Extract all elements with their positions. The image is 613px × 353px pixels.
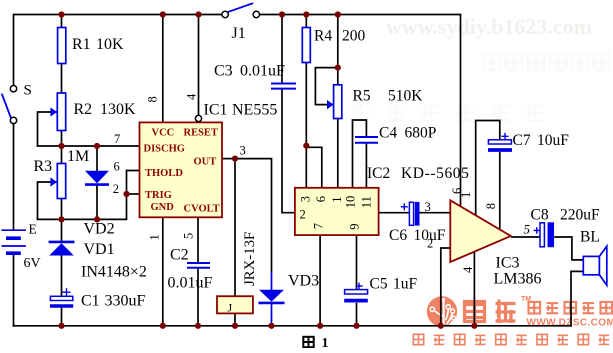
- pin number 6 LM386: [450, 188, 464, 194]
- svg-text:GND: GND: [151, 202, 175, 213]
- wire VD1 to C1: [61, 255, 63, 297]
- svg-text:VD1: VD1: [84, 241, 115, 258]
- wire R5 wiper: [315, 68, 338, 105]
- pin number 3 LM386: [425, 200, 431, 214]
- label R1 10K: [72, 36, 124, 53]
- wire C8 to speaker: [554, 237, 583, 260]
- watermark logo bottom slogan: [413, 334, 609, 344]
- svg-text:NE555: NE555: [232, 102, 277, 119]
- speaker BL: [583, 246, 607, 285]
- wire TRIG to pin2: [127, 193, 140, 195]
- svg-text:10: 10: [344, 196, 358, 209]
- label C2: [170, 247, 189, 264]
- wire top supply rail left segment: [14, 14, 223, 16]
- svg-text:www.sydiy.b1623.com: www.sydiy.b1623.com: [386, 14, 592, 39]
- wire C5 to rail: [356, 303, 358, 326]
- svg-text:330uF: 330uF: [105, 293, 146, 310]
- svg-text:220uF: 220uF: [560, 207, 600, 224]
- svg-text:5: 5: [182, 233, 196, 239]
- pin number 7: [114, 132, 120, 146]
- label S: [24, 83, 32, 99]
- wire battery to bottom rail: [13, 253, 15, 327]
- label C1 330uF: [81, 293, 146, 310]
- label BL: [580, 229, 600, 246]
- label C3 0.01uF: [214, 63, 285, 80]
- label R3: [34, 158, 53, 175]
- wire supply to LM386 pin6: [460, 14, 462, 207]
- svg-text:LM386: LM386: [494, 271, 542, 288]
- svg-text:OUT: OUT: [194, 156, 217, 167]
- svg-text:C6: C6: [389, 227, 407, 244]
- capacitor C7: [488, 133, 512, 150]
- wire pin4 RESET: [198, 15, 200, 116]
- svg-text:3: 3: [298, 196, 312, 202]
- pin number 1 LM386: [459, 192, 473, 198]
- label R5 510K: [353, 88, 424, 105]
- svg-text:5: 5: [524, 222, 531, 237]
- wire R2 wiper: [38, 112, 58, 146]
- junction node top C3: [279, 11, 285, 17]
- resistor R5 wiper arrow: [327, 100, 334, 109]
- wire top supply rail right segment: [260, 14, 461, 16]
- resistor R1: [58, 28, 66, 64]
- svg-text:BL: BL: [580, 229, 600, 246]
- watermark faint text middle: [352, 106, 544, 121]
- battery E 6V: [2, 230, 26, 253]
- svg-text:1: 1: [330, 197, 344, 203]
- wire pin1 GND to rail: [162, 217, 164, 325]
- junction node bottom VD2: [94, 216, 100, 222]
- junction node gnd C1: [58, 323, 64, 329]
- label E: [29, 221, 37, 236]
- wire R4 to IC2 pin3: [305, 62, 307, 188]
- switch J1 contacts: [222, 11, 260, 17]
- junction node TRIG-THOLD: [123, 191, 129, 197]
- resistor R2 pot body: [57, 93, 65, 131]
- svg-text:130K: 130K: [100, 101, 136, 118]
- capacitor C2: [187, 263, 210, 268]
- watermark logo text weiku: [465, 300, 516, 324]
- wire C2 to rail: [197, 268, 199, 326]
- wire R5 top: [337, 15, 339, 85]
- wire TRIG bottom node: [37, 218, 127, 220]
- svg-text:IN4148×2: IN4148×2: [81, 264, 147, 281]
- svg-text:IC2: IC2: [367, 165, 390, 182]
- svg-text:2: 2: [300, 208, 306, 222]
- pin number 1: [148, 234, 162, 240]
- op-amp IC1 NE555 body: [140, 122, 223, 217]
- junction node top R4: [303, 11, 309, 17]
- capacitor C6: [401, 202, 417, 226]
- wire IC2 pin9 to C5: [356, 235, 358, 289]
- label R2 130K: [74, 101, 137, 118]
- svg-text:1: 1: [148, 234, 162, 240]
- label C2 value: [168, 275, 213, 292]
- wire VD3 to rail: [271, 304, 273, 326]
- svg-text:0.01uF: 0.01uF: [240, 63, 285, 80]
- svg-text:1: 1: [459, 192, 473, 198]
- label J1: [232, 25, 246, 42]
- label 1M: [67, 148, 89, 165]
- junction node DISCHG R2: [58, 143, 64, 149]
- wire TRIG riser: [126, 194, 128, 220]
- svg-text:C1: C1: [81, 293, 100, 310]
- label C7 10uF: [513, 132, 570, 149]
- svg-text:4: 4: [461, 266, 475, 273]
- junction node gnd C5: [353, 323, 359, 329]
- wire R2 to R3: [61, 131, 63, 164]
- svg-text:3: 3: [425, 200, 431, 214]
- capacitor C1: [50, 288, 73, 306]
- svg-text:C3: C3: [214, 63, 233, 80]
- label VD1: [84, 241, 115, 258]
- wire LM386 pin4 to rail: [473, 252, 475, 326]
- svg-text:10uF: 10uF: [537, 132, 569, 149]
- IC1 pin4 reset circle: [195, 115, 201, 121]
- caption figure 1: [303, 336, 328, 351]
- svg-text:680P: 680P: [405, 125, 437, 142]
- junction node gnd VD3: [268, 323, 274, 329]
- svg-text:R1: R1: [72, 36, 91, 53]
- svg-text:VCC: VCC: [152, 128, 175, 139]
- wire LM386 output to C8: [511, 236, 540, 238]
- junction node gnd LM386 pin4: [471, 323, 477, 329]
- wire R5 to IC2 pin1: [337, 119, 339, 188]
- pin number 3: [240, 143, 246, 157]
- svg-text:TRIG: TRIG: [145, 190, 172, 201]
- pin number 5: [182, 233, 196, 239]
- svg-text:3: 3: [240, 143, 246, 157]
- wire LM386 input2 to rail: [441, 248, 452, 326]
- svg-text:THOLD: THOLD: [145, 168, 183, 179]
- svg-text:E: E: [29, 221, 37, 236]
- wire R3 wiper: [38, 182, 58, 219]
- wire C1 to ground rail: [61, 308, 63, 326]
- junction node top pin4: [195, 11, 201, 17]
- op-amp IC3 LM386 body: [450, 200, 511, 262]
- svg-text:6: 6: [314, 196, 328, 202]
- label JRX-13F: [242, 232, 258, 286]
- wire IC2 pin3 out to C6: [379, 212, 410, 214]
- label IC1 NE555: [204, 102, 278, 119]
- label R4: [314, 28, 332, 45]
- resistor R3 pot body: [57, 164, 65, 199]
- capacitor C8: [534, 222, 551, 247]
- label C5 1uF: [370, 276, 418, 293]
- junction node gnd IC2 pin7: [317, 323, 323, 329]
- svg-text:C7: C7: [513, 132, 531, 149]
- label 200: [342, 28, 366, 45]
- svg-text:8: 8: [146, 96, 160, 102]
- wire R4 top: [305, 15, 307, 28]
- pin number 2: [113, 182, 119, 196]
- svg-text:DISCHG: DISCHG: [144, 144, 185, 155]
- svg-text:WWW.DZSC.COM: WWW.DZSC.COM: [527, 318, 613, 329]
- svg-text:VD2: VD2: [84, 221, 115, 238]
- svg-text:R2: R2: [74, 101, 93, 118]
- svg-text:RESET: RESET: [184, 128, 218, 139]
- svg-text:6: 6: [114, 159, 120, 173]
- svg-text:200: 200: [342, 28, 366, 45]
- wire VD2 bottom: [96, 185, 98, 220]
- svg-text:S: S: [24, 83, 32, 99]
- junction node gnd pin1: [160, 323, 166, 329]
- svg-text:R4: R4: [314, 28, 332, 45]
- svg-text:1: 1: [322, 336, 329, 348]
- junction node gnd crystal: [232, 323, 238, 329]
- wire pin5 CVOLT to C2: [197, 217, 199, 263]
- watermark logo TM: [521, 296, 531, 303]
- wire THOLD to pin6: [127, 171, 140, 195]
- IC2 pin numbers: [298, 196, 373, 230]
- svg-text:7: 7: [114, 132, 120, 146]
- junction node top pin8: [160, 11, 166, 17]
- switch S lever: [2, 94, 11, 117]
- label LM386: [494, 271, 542, 288]
- wire VD2 top: [96, 146, 98, 171]
- label VD3: [288, 273, 319, 290]
- svg-text:R3: R3: [34, 158, 53, 175]
- svg-text:10K: 10K: [96, 36, 124, 53]
- wire R1 top: [61, 15, 63, 28]
- wire C3 top: [281, 15, 283, 84]
- wire OUT branch to VD3: [235, 159, 272, 290]
- svg-text:1M: 1M: [67, 148, 89, 165]
- svg-text:IC3: IC3: [496, 255, 520, 272]
- watermark faint text right: [484, 54, 610, 70]
- svg-text:C2: C2: [170, 247, 189, 264]
- capacitor C3: [271, 84, 296, 89]
- label VD2: [84, 221, 115, 238]
- junction node gnd C2: [195, 323, 201, 329]
- wire crystal to rail: [234, 313, 236, 325]
- pin number 4: [185, 93, 199, 100]
- resistor R5 pot body: [334, 85, 342, 119]
- svg-text:7: 7: [311, 223, 325, 229]
- junction node R5 wiper: [335, 65, 341, 71]
- crystal J letter: [228, 301, 233, 315]
- diode VD3: [259, 290, 285, 303]
- watermark faint url text top: [386, 14, 592, 39]
- wire R1 to R2: [61, 64, 63, 94]
- junction node R4-IC2: [303, 143, 309, 149]
- pin number 8 LM386: [484, 203, 498, 209]
- junction node gnd LM386 pin2: [438, 323, 444, 329]
- wire switch S to battery: [13, 124, 15, 231]
- wire OUT to crystal: [234, 159, 236, 297]
- label pin5 output: [524, 222, 531, 237]
- wire DISCHG node pin7: [37, 145, 140, 147]
- svg-text:2: 2: [113, 182, 119, 196]
- pin number 2 LM386: [427, 237, 433, 251]
- svg-text:VD3: VD3: [288, 273, 319, 290]
- pin number 4 LM386: [461, 266, 475, 273]
- wire bottom ground rail: [13, 325, 572, 327]
- wire IC2 pin7 to rail: [319, 235, 321, 326]
- wire OUT pin3: [222, 158, 235, 160]
- svg-text:4: 4: [185, 93, 199, 100]
- junction node OUT: [232, 156, 238, 162]
- crystal J JRX-13F body: [217, 296, 253, 313]
- svg-text:2: 2: [427, 237, 433, 251]
- watermark logo url: [527, 318, 613, 329]
- capacitor C4: [355, 137, 378, 143]
- svg-text:9: 9: [347, 223, 361, 229]
- switch S contacts: [10, 86, 16, 124]
- svg-text:11: 11: [360, 196, 374, 208]
- wire C3 to IC2 pin2: [282, 89, 295, 213]
- wire left rail to switch S: [13, 14, 15, 86]
- diode VD2: [85, 171, 109, 185]
- label IC2 KD--5605: [367, 165, 470, 182]
- svg-text:C5: C5: [370, 276, 388, 293]
- svg-text:J1: J1: [232, 25, 246, 42]
- junction node top R1: [58, 11, 64, 17]
- wire node to IC2 pin6: [306, 147, 322, 188]
- IC1 pin names: [144, 128, 220, 215]
- switch J1 lever: [229, 3, 253, 11]
- svg-text:C4: C4: [379, 125, 397, 142]
- label 6V: [24, 256, 41, 271]
- label IN4148x2: [81, 264, 147, 281]
- wire C4 right leg IC2 pin11: [365, 143, 367, 188]
- svg-text:J: J: [228, 301, 233, 315]
- wire speaker return: [571, 271, 583, 326]
- svg-text:C8: C8: [531, 207, 549, 224]
- watermark logo icon circle: [427, 296, 457, 327]
- junction node bottom R3: [58, 216, 64, 222]
- resistor R3 wiper arrow: [50, 177, 57, 186]
- watermark logo text row1: [528, 302, 612, 314]
- capacitor C5: [344, 283, 368, 301]
- label C4 680P: [379, 125, 436, 142]
- svg-text:IC1: IC1: [204, 102, 228, 119]
- junction node DISCHG VD2: [94, 143, 100, 149]
- wire R3 to VD1: [61, 199, 63, 242]
- svg-text:0.01uF: 0.01uF: [168, 275, 213, 292]
- label C6 10uF: [389, 227, 446, 244]
- svg-text:CVOLT: CVOLT: [184, 204, 220, 215]
- pin number 8: [146, 96, 160, 102]
- svg-text:JRX-13F: JRX-13F: [242, 232, 258, 286]
- svg-text:R5: R5: [353, 88, 371, 105]
- junction node top R5: [335, 11, 341, 17]
- svg-text:KD--5605: KD--5605: [401, 165, 470, 182]
- label C8 220uF: [531, 207, 601, 224]
- wire C7 loop pin1: [476, 121, 500, 216]
- pin number 6: [114, 159, 120, 173]
- resistor R4: [302, 28, 310, 63]
- wire C6 to LM386 input3: [420, 212, 451, 214]
- svg-text:6V: 6V: [24, 256, 41, 271]
- wire C4 left leg IC2 pin10: [353, 120, 367, 188]
- svg-text:510K: 510K: [388, 88, 423, 105]
- label IC3: [496, 255, 520, 272]
- wire C7 to pin8: [499, 152, 501, 229]
- svg-text:8: 8: [484, 203, 498, 209]
- diode VD1: [49, 242, 75, 256]
- wire pin8 VCC: [162, 15, 164, 123]
- IC2 KD--5605 body: [295, 188, 379, 235]
- svg-text:1uF: 1uF: [393, 276, 418, 293]
- resistor R2 wiper arrow: [50, 107, 57, 116]
